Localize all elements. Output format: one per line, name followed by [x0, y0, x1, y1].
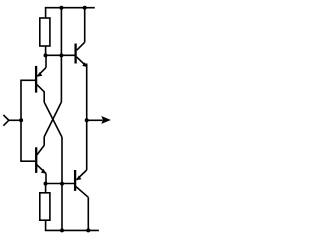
- transistor Q1 emitter diagonal: [37, 68, 46, 77]
- junction dot node A mid: [59, 53, 63, 57]
- resistor R1: [40, 18, 50, 46]
- wire Q2 emitter lead: [45, 173, 47, 183]
- wire bottom rail: [45, 229, 99, 231]
- wire node B horizontal: [46, 183, 75, 185]
- transistor Q4 emitter arrow (PNP, into bar): [76, 176, 81, 181]
- wire X diagonal 1: [44, 102, 62, 137]
- transistor Q3 collector diagonal: [77, 42, 85, 50]
- wire Q1 base: [20, 79, 35, 81]
- transistor Q3 emitter diagonal: [76, 57, 86, 67]
- resistor R2: [40, 193, 50, 220]
- wire left input vertical: [20, 80, 22, 161]
- input chevron terminal: [3, 115, 8, 126]
- junction dot input: [19, 118, 23, 122]
- output arrowhead: [101, 116, 111, 124]
- wire top rail: [45, 7, 95, 9]
- wire node A horizontal: [46, 54, 75, 56]
- wire input lead: [9, 119, 21, 121]
- transistor Q4 collector diagonal: [76, 187, 88, 198]
- transistor Q4 bar: [74, 170, 76, 191]
- junction dot bottom rail mid: [60, 228, 64, 232]
- wire Q2 collector vertical: [43, 137, 45, 145]
- junction dot top rail left: [59, 6, 63, 10]
- wire Q4 collector lead: [87, 197, 89, 230]
- junction dot node B left: [44, 182, 48, 186]
- wire R2 top lead: [45, 184, 47, 193]
- transistor Q2 emitter arrow (NPN, outward): [41, 169, 46, 174]
- transistor Q2 bar: [35, 147, 37, 173]
- wire R2 bottom lead: [45, 220, 47, 230]
- junction dot node A left: [44, 53, 48, 57]
- wire R1 top lead: [45, 8, 47, 18]
- wire X diagonal 2: [44, 102, 61, 137]
- wire Q3 collector lead: [84, 8, 86, 43]
- wire output lead: [87, 119, 103, 121]
- transistor Q1 collector diagonal: [37, 85, 44, 102]
- transistor Q3 emitter arrow (NPN, outward): [82, 62, 87, 67]
- junction dot top rail right: [83, 6, 87, 10]
- transistor Q1 bar: [35, 66, 37, 93]
- transistor Q4 emitter diagonal: [77, 170, 87, 180]
- wire R1 bottom lead: [45, 46, 47, 55]
- wire Q1 emitter lead: [45, 55, 47, 67]
- junction dot output: [85, 118, 89, 122]
- transistor Q2 collector diagonal: [37, 145, 45, 155]
- transistor Q2 emitter diagonal: [37, 165, 47, 174]
- wire Q3 emitter / output vertical: [86, 64, 88, 171]
- junction dot node B mid: [60, 182, 64, 186]
- transistor Q1 emitter arrow (PNP, into bar): [37, 72, 42, 77]
- transistor Q3 bar: [74, 44, 76, 64]
- junction dot bottom rail right: [86, 228, 90, 232]
- wire mid vertical upper: [60, 8, 62, 102]
- wire Q2 base: [20, 160, 35, 162]
- wire mid vertical lower: [61, 137, 63, 230]
